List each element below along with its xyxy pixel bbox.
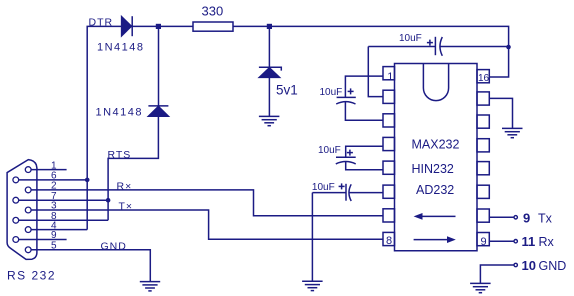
DB9 pin 2 contact bbox=[25, 187, 31, 193]
IC left pin box 6 bbox=[383, 185, 395, 198]
svg-text:MAX232: MAX232 bbox=[412, 137, 460, 151]
ground G3 (pin15) bbox=[502, 128, 523, 137]
IC right pin box 11 bbox=[477, 185, 489, 198]
IC left pin box 4 bbox=[383, 137, 395, 150]
wire zener to ground bbox=[268, 77, 270, 116]
wire pin15 to ground bbox=[489, 98, 512, 128]
wire resistor to top-right corner, down to pin16 bbox=[233, 26, 509, 77]
svg-text:T×: T× bbox=[119, 200, 134, 212]
junction node RTS at DB9 pin7 bbox=[106, 198, 111, 203]
wire DB9 pin2 Rx to IC pin7 bbox=[31, 190, 383, 216]
wire C4 to ground bbox=[311, 193, 313, 282]
wire zener branch bbox=[268, 26, 270, 67]
DB9 pin 3 contact bbox=[25, 207, 31, 213]
ground G4 (terminal) bbox=[470, 283, 491, 292]
DB9 pin 8 contact bbox=[13, 217, 19, 223]
svg-text:RS 232: RS 232 bbox=[7, 269, 56, 283]
svg-text:10uF: 10uF bbox=[318, 145, 341, 156]
resistor R1 330 bbox=[193, 22, 233, 31]
svg-text:10: 10 bbox=[522, 258, 536, 273]
zener diode D3 5v1 bbox=[259, 67, 281, 77]
wire DTR vertical from DB9 pin4 up to top rail bbox=[87, 26, 121, 229]
diode D2 1N4148 (RTS, pointing up) bbox=[148, 106, 168, 116]
DB9 pin 6 contact bbox=[13, 177, 19, 183]
DB9 connector shell bbox=[7, 160, 37, 260]
DB9 pin 9 contact bbox=[13, 237, 19, 243]
svg-text:GND: GND bbox=[539, 259, 567, 273]
ground G1 (zener) bbox=[259, 116, 280, 125]
svg-text:10uF: 10uF bbox=[399, 33, 422, 44]
junction node DTR at DB9 pin6 bbox=[85, 178, 90, 183]
IC left pin box 7 bbox=[383, 209, 395, 222]
junction node at R1/zener bbox=[267, 24, 272, 29]
svg-text:1N4148: 1N4148 bbox=[97, 42, 145, 54]
wire GND terminal bbox=[480, 265, 514, 283]
svg-text:RTS: RTS bbox=[108, 149, 132, 161]
IC left pin box 3 bbox=[383, 114, 395, 127]
DB9 pin 1 contact bbox=[25, 167, 31, 173]
terminal circle Tx bbox=[514, 216, 517, 219]
capacitor C1 10uF (pin1-pin3) bbox=[336, 76, 383, 120]
wire junction down to diode D2 bbox=[158, 26, 160, 106]
IC U1 body MAX232 bbox=[395, 64, 478, 251]
svg-text:8: 8 bbox=[386, 235, 392, 247]
svg-text:Tx: Tx bbox=[538, 211, 553, 225]
svg-text:HIN232: HIN232 bbox=[412, 162, 454, 176]
terminal circle Rx bbox=[514, 240, 517, 243]
wire DB9 pin7 to RTS junction bbox=[19, 199, 108, 201]
IC right pin box 15 bbox=[477, 92, 489, 105]
svg-text:11: 11 bbox=[522, 234, 536, 249]
svg-text:DTR: DTR bbox=[89, 16, 114, 28]
DB9 pin 7 contact bbox=[13, 197, 19, 203]
svg-text:10uF: 10uF bbox=[320, 87, 343, 98]
IC right pin box 10 bbox=[477, 209, 489, 222]
wire pin9 to Rx terminal bbox=[489, 240, 514, 242]
wire DB9 pin1 stub bbox=[31, 169, 66, 171]
wire DB9 pin6 to DTR junction bbox=[19, 179, 87, 181]
DB9 pin 5 contact bbox=[25, 247, 31, 253]
svg-text:1N4148: 1N4148 bbox=[96, 107, 144, 119]
wire DB9 pin5 GND bbox=[31, 250, 150, 282]
svg-text:9: 9 bbox=[481, 236, 487, 248]
svg-text:16: 16 bbox=[478, 73, 490, 84]
svg-text:9: 9 bbox=[523, 210, 530, 225]
svg-text:10uF: 10uF bbox=[312, 182, 335, 193]
diode D1 1N4148 (series, pointing right) bbox=[122, 16, 133, 36]
arrow RS232 in (right) bbox=[414, 236, 456, 243]
wire D1 cathode to resistor bbox=[132, 25, 193, 27]
capacitor C2 10uF (pin2 to +V rail, horizontal) bbox=[368, 37, 508, 56]
wire top cap rail from pin2 bbox=[368, 47, 383, 97]
ground G5 (C4) bbox=[302, 281, 323, 290]
svg-text:Rx: Rx bbox=[539, 235, 555, 249]
terminal circle GND bbox=[514, 263, 517, 266]
IC right pin box 9 bbox=[477, 233, 489, 246]
wire DB9 pin4 to DTR vertical bbox=[31, 229, 87, 231]
IC right pin box 16 bbox=[477, 70, 489, 83]
junction node at C2/+V rail bbox=[506, 45, 511, 50]
IC left pin box 8 bbox=[383, 232, 395, 245]
arrow RS232 out (left) bbox=[414, 213, 456, 220]
IC left pin box 1 bbox=[383, 67, 395, 80]
wire DB9 pin9 stub bbox=[19, 239, 67, 241]
svg-text:1: 1 bbox=[387, 71, 393, 83]
ground G2 (DB9) bbox=[140, 282, 160, 291]
wire D2 anode to RTS corner to pin7/pin8 of DB9 bbox=[108, 116, 158, 220]
capacitor C4 10uF (pin6 to ground, horizontal) bbox=[312, 183, 383, 201]
DB9 pin 4 contact bbox=[25, 227, 31, 233]
svg-text:GND: GND bbox=[101, 240, 127, 252]
junction node at D1/D2/R1 bbox=[156, 24, 161, 29]
IC left pin box 2 bbox=[383, 90, 395, 103]
IC left pin box 5 bbox=[383, 161, 395, 174]
wire DB9 pin3 Tx to IC pin8 bbox=[31, 210, 383, 239]
IC right pin box 13 bbox=[477, 139, 489, 152]
wire pin10 to Tx terminal bbox=[489, 216, 514, 218]
svg-text:R×: R× bbox=[117, 180, 133, 192]
svg-text:5v1: 5v1 bbox=[276, 83, 298, 98]
svg-text:AD232: AD232 bbox=[416, 183, 454, 197]
IC right pin box 12 bbox=[477, 162, 489, 175]
svg-text:330: 330 bbox=[202, 4, 224, 19]
wire DB9 pin8 stub to RTS vertical bbox=[19, 219, 108, 221]
DB9 pin numbers column bbox=[51, 160, 57, 251]
IC right pin box 14 bbox=[477, 115, 489, 128]
capacitor C3 10uF (pin4-pin5) bbox=[336, 146, 383, 169]
